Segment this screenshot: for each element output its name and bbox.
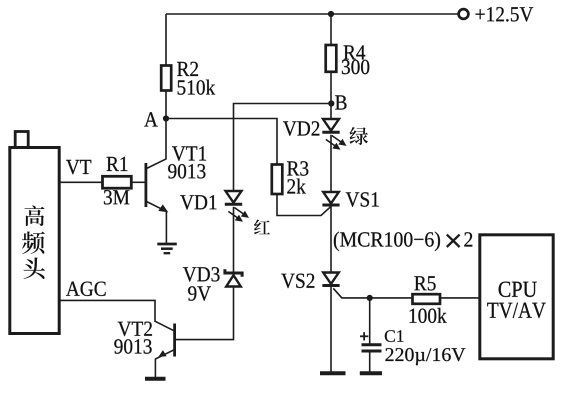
- label 9013: [168, 164, 205, 179]
- wire: VD2 to VS1: [330, 135, 332, 192]
- resistor R2: [161, 66, 171, 91]
- label R1: [107, 157, 128, 171]
- label R4: [344, 45, 366, 59]
- resistor R5: [413, 294, 441, 304]
- label A: [144, 112, 158, 126]
- transistor VT2 (mirrored): [155, 321, 174, 359]
- ground under VT1: [157, 244, 177, 253]
- label 220u/16V: [385, 348, 465, 365]
- tuner box (high frequency head): [10, 148, 59, 334]
- label VD1: [180, 195, 216, 210]
- wire: node B to VD1 column: [234, 104, 332, 192]
- label VS1: [346, 192, 379, 207]
- transistor VT1: [146, 159, 168, 213]
- label 100k: [410, 308, 447, 323]
- wire: VT1 emitter to ground: [165, 212, 167, 245]
- resistor R4: [326, 45, 337, 72]
- wire: AGC to VT2 collector: [59, 300, 155, 322]
- label VS2: [281, 274, 314, 289]
- resistor R1: [103, 176, 132, 188]
- CPU TV/AV box: [480, 235, 553, 359]
- label pin: [22, 232, 45, 254]
- label 9V: [188, 286, 211, 301]
- resistor R3: [272, 165, 283, 195]
- label 510k: [178, 80, 216, 95]
- ground under C1: [360, 371, 382, 375]
- label (MCR100-6)x2: [334, 232, 440, 251]
- wire: VS1 to VS2: [330, 205, 332, 272]
- wire: R4 to node B: [330, 72, 332, 104]
- thyristor VS1: [322, 192, 339, 205]
- label green: [349, 127, 367, 145]
- label 2k: [287, 179, 305, 194]
- label 3M: [104, 190, 129, 204]
- terminal +12.5V: [459, 9, 469, 19]
- wire: rail down to R4: [330, 14, 332, 45]
- LED VD1: [225, 191, 249, 222]
- node B: [328, 100, 334, 106]
- label AGC: [66, 282, 106, 296]
- junction on rail above R4: [328, 11, 334, 17]
- wire: R5 to CPU box: [440, 297, 480, 299]
- capacitor C1 (electrolytic): [360, 332, 382, 351]
- LED VD2: [322, 119, 346, 150]
- zener diode VD3: [225, 269, 242, 286]
- label VT2: [118, 322, 152, 337]
- label R3: [287, 161, 308, 175]
- junction above C1: [367, 295, 373, 301]
- wire: rail down to R2: [165, 14, 167, 66]
- wire: VD3 down and left to VT2 base: [176, 287, 234, 340]
- label 9013 (VT2): [114, 339, 151, 354]
- ground under VS2: [320, 371, 346, 375]
- wire: R3 bottom to VS1 gate: [277, 194, 331, 216]
- wire: VT2 emitter to ground: [154, 359, 156, 379]
- label tou: [23, 257, 44, 279]
- wire: tuner VT out to R1: [59, 181, 103, 183]
- label red: [254, 220, 270, 235]
- thyristor VS2: [322, 273, 339, 286]
- label +12.5V: [476, 7, 534, 22]
- wire: +12.5V supply rail: [166, 13, 458, 15]
- wire: C1 to ground: [369, 351, 371, 373]
- wire: junction down to C1: [369, 298, 371, 345]
- wire: node B to VD2: [330, 104, 332, 120]
- label B: [335, 95, 346, 109]
- label VD3: [183, 267, 220, 282]
- label gao: [25, 206, 45, 226]
- antenna connector square: [15, 132, 28, 148]
- label R5: [414, 276, 435, 290]
- wire: node A to VT1 collector: [165, 119, 167, 160]
- wire: R2 to node A: [165, 91, 167, 119]
- wire: node A to R3 top: [166, 119, 277, 165]
- label R2: [177, 62, 198, 76]
- wire: VS2 cathode down to ground: [330, 286, 332, 373]
- wire: VS2 gate to R5: [333, 288, 412, 298]
- label C1: [385, 330, 404, 342]
- label TV/AV: [487, 303, 545, 319]
- label 300: [342, 60, 369, 75]
- label CPU: [499, 282, 537, 297]
- label VT1: [172, 146, 206, 161]
- label VT: [66, 160, 91, 174]
- label VD2: [283, 121, 319, 136]
- wire: VD1 to VD3: [233, 207, 235, 272]
- wire: R1 to VT1 base: [131, 181, 144, 183]
- ground under VT2: [145, 377, 166, 381]
- node A: [163, 115, 169, 121]
